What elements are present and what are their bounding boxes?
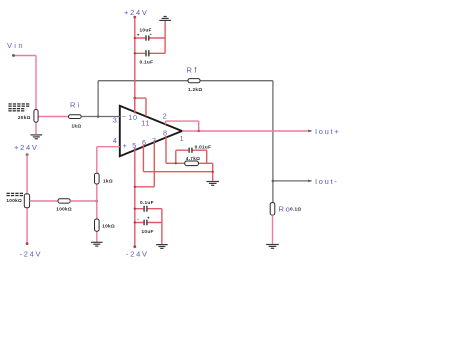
node junction cap row2 (134, 52, 136, 54)
capacitor C2 0.1uF (146, 50, 149, 56)
svg-text:7: 7 (152, 136, 157, 145)
wire pin 10 stub (134, 98, 136, 113)
wire -24V cap right rail to ground (161, 209, 163, 244)
wire pot1 bottom to ground (35, 122, 37, 134)
svg-text:10uF: 10uF (140, 28, 152, 33)
svg-text:0.1uF: 0.1uF (140, 200, 154, 205)
wire divider node up to 1k (96, 184, 98, 201)
wire branch to pin 11 (135, 98, 146, 116)
terminal Iout- (308, 180, 312, 183)
wire pin 6 horizontal to ground drop (143, 171, 212, 173)
resistor 4.7k (185, 161, 199, 166)
svg-text:10kΩ: 10kΩ (102, 223, 115, 228)
wire capacitor row 0.1uF (135, 52, 165, 54)
wire cap right rail to ground (164, 21, 166, 54)
svg-text:+24V: +24V (124, 8, 149, 17)
resistor 10k vertical (95, 219, 100, 231)
svg-text:1kΩ: 1kΩ (72, 123, 82, 128)
svg-text:-24V: -24V (20, 249, 43, 258)
wire feedback right vertical down to Ro (272, 81, 274, 203)
wire pot2 to -24V (26, 208, 28, 244)
svg-text:2: 2 (163, 112, 168, 121)
wire pin 7 (135, 141, 155, 187)
svg-text:0.1uF: 0.1uF (140, 60, 154, 65)
node junction rail (134, 97, 137, 100)
svg-text:4.7kΩ: 4.7kΩ (186, 156, 200, 161)
ground (266, 245, 279, 249)
potentiometer VR1 20k body (34, 110, 38, 123)
capacitor C1 10uF (146, 35, 149, 40)
resistor 1k vertical (95, 173, 100, 184)
wire 10k to ground (96, 231, 98, 242)
svg-text:10uF: 10uF (142, 229, 154, 234)
wire pin 5 rail to -24V (134, 148, 136, 247)
svg-text:100kΩ: 100kΩ (6, 198, 22, 203)
wire pin 6 (142, 145, 144, 172)
svg-text:1kΩ: 1kΩ (103, 178, 113, 183)
wire +24V rail down to pin 10 (134, 17, 136, 113)
wire pin 8 (165, 136, 167, 163)
ground flipped top (159, 17, 171, 21)
wire Ri to op-amp pin 3 (81, 116, 120, 118)
wire 100k to divider node (70, 200, 97, 202)
op-amp U1 (120, 106, 182, 156)
capacitor C3 0.01uF (189, 148, 192, 153)
svg-text:8: 8 (163, 129, 168, 138)
svg-text:6: 6 (142, 138, 147, 147)
capacitor C5 10uF (144, 220, 147, 226)
svg-text:Rf: Rf (187, 66, 199, 75)
terminal +24V left (26, 153, 29, 156)
ground (156, 245, 168, 249)
ground (91, 242, 103, 246)
svg-text:Iout+: Iout+ (315, 127, 340, 136)
node junction cap row1 (134, 37, 136, 39)
svg-text:1: 1 (180, 134, 185, 143)
wire Iout- row (273, 180, 312, 182)
label potentiometer (Japanese) line1 (8, 103, 29, 111)
node junction -24V row2 (134, 221, 136, 223)
resistor Ri 1k (69, 115, 82, 119)
svg-text:−: − (122, 112, 127, 121)
wire pot2 wiper to 100k resistor (30, 200, 58, 202)
svg-text:+: + (137, 33, 140, 38)
svg-text:+: + (123, 141, 128, 150)
svg-text:0.01uF: 0.01uF (195, 144, 212, 149)
svg-text:5: 5 (132, 141, 137, 150)
svg-text:0.1Ω: 0.1Ω (290, 207, 301, 212)
svg-text:Iout-: Iout- (315, 177, 339, 186)
label VR2 (Japanese) (7, 193, 24, 197)
wire 4.7k row (166, 163, 213, 180)
node junction input (97, 115, 100, 118)
ground (206, 182, 219, 186)
node junction output (197, 130, 200, 133)
terminal +24V top (133, 16, 136, 19)
svg-text:Ri: Ri (70, 101, 82, 110)
terminal Vin (12, 54, 15, 57)
svg-text:1.2kΩ: 1.2kΩ (188, 87, 202, 92)
wire snubber cap row (176, 150, 207, 163)
svg-text:100kΩ: 100kΩ (56, 207, 72, 212)
wire capacitor row 10uF (135, 37, 165, 39)
svg-text:11: 11 (141, 118, 150, 127)
svg-text:4: 4 (113, 136, 118, 145)
resistor Ro 0.1Ω (270, 203, 275, 216)
wire Ro to ground (272, 215, 274, 244)
wire divider node down to 10k (96, 201, 98, 219)
terminal -24V left (26, 242, 29, 245)
wire pin 2 (166, 121, 199, 131)
node junction snubber right (212, 171, 214, 173)
node junction Iout- (272, 180, 275, 183)
resistor Rf 1.2k (188, 79, 200, 83)
wire 1k to pin 4 (97, 147, 120, 174)
capacitor C4 0.1uF (144, 206, 147, 212)
node junction -24V row1 (134, 208, 136, 210)
wire -24V cap row 0.1uF (135, 208, 162, 210)
wire Vin vertical to potentiometer (35, 56, 37, 110)
node junction snubber left (175, 162, 177, 164)
svg-text:3: 3 (113, 116, 118, 125)
node junction divider (96, 200, 99, 203)
svg-text:10: 10 (128, 113, 138, 122)
svg-text:20kΩ: 20kΩ (18, 115, 31, 120)
terminal -24V center (133, 245, 136, 248)
terminal Iout+ (308, 130, 312, 133)
svg-text:-24V: -24V (126, 249, 149, 258)
wire +24V to pot2 (26, 155, 28, 194)
wire output row to Iout+ (182, 130, 312, 132)
node junction pin7 rail (134, 186, 136, 188)
wire feedback vertical left (97, 81, 99, 117)
resistor 100k (58, 199, 70, 203)
potentiometer VR2 100k body (24, 194, 29, 208)
wire -24V cap row 10uF (135, 222, 162, 224)
svg-text:+: + (147, 215, 150, 220)
ground (31, 135, 43, 139)
svg-text:Vin: Vin (7, 41, 25, 50)
wire pot1 wiper to Ri (38, 116, 69, 118)
svg-text:+24V: +24V (14, 143, 39, 152)
svg-text:-: - (137, 217, 139, 222)
wire feedback top horizontal (98, 80, 273, 82)
wire Vin horizontal (14, 55, 37, 57)
